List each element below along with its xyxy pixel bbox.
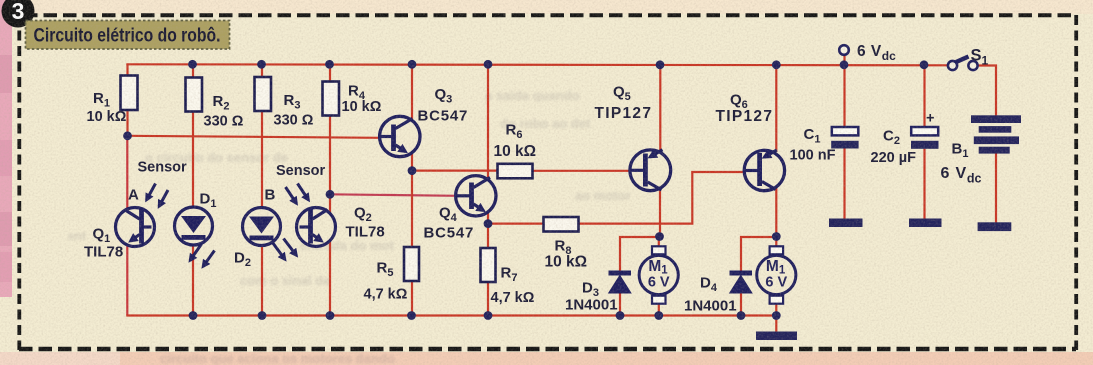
ground M2 bbox=[756, 332, 797, 341]
wire: motor M2 leads bbox=[775, 237, 777, 248]
node M1 bottom bbox=[654, 311, 663, 320]
motor M2 (right) bbox=[757, 246, 796, 303]
wire: R3 bottom through D2 to bottom rail bbox=[261, 110, 263, 316]
capacitor C1 100nF bbox=[790, 126, 859, 164]
transistor Q5 TIP127 bbox=[595, 84, 671, 191]
wire: Q5 emitter to motor node bbox=[659, 188, 661, 237]
wire: D4 to motor node bbox=[741, 237, 776, 271]
resistor R5 bbox=[364, 247, 420, 303]
wire: Q1 collector/emitter vertical bbox=[126, 136, 128, 316]
wire: Q4 collector from rail bbox=[487, 64, 489, 196]
wire: S1 to battery bbox=[978, 66, 997, 117]
resistor R7 bbox=[481, 248, 535, 306]
diode D3 1N4001 bbox=[565, 271, 632, 314]
node R7 bottom bbox=[484, 311, 493, 320]
wire: D3 to bottom rail bbox=[619, 294, 621, 316]
node R5 bottom bbox=[407, 311, 416, 320]
wire: Q5 collector from rail bbox=[659, 65, 661, 152]
resistor R3 bbox=[255, 77, 314, 129]
motor M1 (left) bbox=[639, 246, 678, 303]
wire: Q3 emitter to node bbox=[411, 138, 413, 171]
wire: +6V top rail bbox=[126, 64, 948, 65]
item number badge 3 bbox=[2, 0, 35, 28]
transistor Q4 BC547 bbox=[424, 176, 496, 242]
transistor Q6 TIP127 bbox=[716, 92, 785, 191]
ground C1 bbox=[829, 219, 863, 228]
light arrows into Q2 bbox=[286, 184, 309, 204]
node D2 bottom bbox=[258, 311, 267, 320]
wire: R2 top bbox=[192, 64, 194, 78]
battery B1 bbox=[941, 115, 1022, 185]
node R3 top bbox=[257, 60, 266, 69]
wire: node through R7 to bottom rail bbox=[487, 224, 489, 316]
node R4 top bbox=[325, 60, 334, 69]
switch S1 bbox=[948, 47, 989, 71]
ground C2 bbox=[909, 219, 942, 228]
transistor Q2 TIL78 phototransistor bbox=[297, 205, 385, 247]
node Q3 emitter bbox=[408, 166, 417, 175]
node R1/Q1 bbox=[123, 131, 132, 140]
wire: R3 top bbox=[261, 64, 263, 78]
wire: R8 to Q6 base bbox=[579, 172, 747, 224]
wire: R6 to Q5 base bbox=[533, 170, 631, 172]
wire: Q3 collector from rail bbox=[411, 64, 413, 138]
wire: Q6 emitter to motor node bbox=[775, 188, 777, 237]
node Q3 collector top bbox=[408, 60, 417, 69]
node D1 bottom bbox=[189, 311, 198, 320]
resistor R4 bbox=[323, 82, 382, 116]
wire: node through R5 to bottom rail bbox=[411, 171, 413, 316]
node R4/Q2/Q4 base bbox=[326, 190, 335, 199]
node D4 bottom bbox=[737, 311, 746, 320]
LED D1 bbox=[175, 191, 217, 246]
wire: node B to Q4 base bbox=[330, 194, 457, 196]
resistor R1 bbox=[87, 76, 138, 126]
node C1 top bbox=[840, 60, 849, 69]
resistor R2 bbox=[186, 78, 244, 130]
node M1 top bbox=[655, 232, 664, 241]
node M2 top bbox=[772, 232, 781, 241]
node Q2 bottom bbox=[326, 311, 335, 320]
wire: C2 bottom to ground bbox=[923, 149, 925, 219]
node M2 bottom bbox=[772, 311, 781, 320]
resistor R8 bbox=[544, 217, 588, 271]
wire: R4 bottom through Q2 to bottom rail bbox=[329, 115, 331, 316]
light arrows into Q1 bbox=[147, 184, 169, 207]
transistor Q3 BC547 bbox=[380, 86, 469, 157]
wire: Q4 emitter to node bbox=[487, 196, 489, 224]
transistor Q1 TIL78 phototransistor bbox=[84, 208, 155, 261]
title: Circuito elétrico do robô bbox=[26, 21, 230, 50]
diode D4 1N4001 bbox=[684, 271, 753, 315]
LED D2 bbox=[234, 208, 281, 270]
wire: node to R8 bbox=[488, 223, 544, 225]
wire: motor M1 leads bbox=[658, 237, 660, 248]
node R2 top bbox=[188, 60, 197, 69]
scan grain (decorative) bbox=[0, 0, 1, 1]
wire: D4 to bottom rail bbox=[740, 294, 742, 316]
wire: C1 bottom to ground bbox=[843, 149, 845, 220]
wire: Q6 collector from rail bbox=[775, 65, 777, 152]
wire: M2 ground stub bbox=[775, 316, 777, 333]
node C2 top bbox=[920, 60, 929, 69]
wire: R1 bottom to node bbox=[126, 110, 128, 137]
wire: R4 top bbox=[329, 64, 331, 82]
ghost bleedthrough text (decorative) bbox=[68, 88, 631, 365]
light arrows out of D2 bbox=[273, 239, 297, 260]
capacitor C2 220uF bbox=[871, 111, 939, 167]
wire: node to R6 bbox=[412, 170, 498, 172]
resistor R6 bbox=[494, 122, 537, 179]
terminal 6Vdc bbox=[839, 43, 896, 63]
node Q4 collector top bbox=[484, 60, 493, 69]
wire: ground rail bottom bbox=[126, 314, 776, 316]
wire: C2 top bbox=[923, 65, 925, 127]
wire: R1 top bbox=[126, 64, 128, 76]
wire: R2 bottom through D1 to bottom rail bbox=[192, 111, 194, 316]
node Q5 top bbox=[656, 60, 665, 69]
wire: D3 to motor node bbox=[620, 237, 659, 271]
ground B1 bbox=[978, 222, 1012, 231]
wire: C1 top bbox=[843, 55, 845, 127]
node Q4 emitter bbox=[484, 219, 493, 228]
light arrows out of D1 bbox=[190, 244, 215, 267]
wire: node to Q3 base bbox=[128, 136, 380, 138]
wire: B1 bottom to ground bbox=[995, 153, 997, 223]
node D3 bottom bbox=[616, 311, 625, 320]
node Q6 top bbox=[772, 60, 781, 69]
